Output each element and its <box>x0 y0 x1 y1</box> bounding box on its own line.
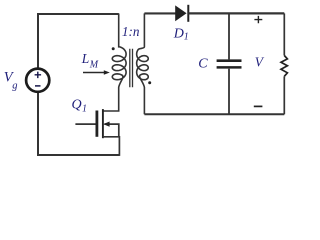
MOSFET gate bar <box>96 111 99 137</box>
svg-text:C: C <box>198 56 208 71</box>
svg-text:D: D <box>173 26 184 41</box>
svg-text:Q: Q <box>72 97 82 112</box>
MOSFET channel line <box>102 109 104 138</box>
resistor load zigzag <box>281 56 287 77</box>
svg-text:1: 1 <box>82 103 87 114</box>
MOSFET body arrow line <box>105 124 119 137</box>
polarity dot secondary <box>148 81 151 84</box>
svg-text:L: L <box>81 51 90 66</box>
wire: capacitor bottom lead <box>228 69 230 115</box>
capacitor C bottom plate <box>217 66 242 69</box>
svg-text:1:n: 1:n <box>122 24 140 39</box>
wire: primary loop top/left/bottom rails <box>38 14 119 155</box>
svg-text:g: g <box>12 81 17 92</box>
minus sign inside source <box>35 85 41 87</box>
wire: capacitor top lead <box>228 13 230 59</box>
svg-text:V: V <box>255 54 265 69</box>
capacitor C top plate <box>217 59 242 62</box>
transformer core lines <box>130 49 133 88</box>
polarity dot primary <box>112 47 115 50</box>
LM arrow <box>83 72 105 74</box>
transformer primary winding LM with top lead and drain lead <box>103 14 126 112</box>
wire: right rail lower <box>283 76 285 114</box>
wire: secondary top lead to diode anode <box>144 12 175 14</box>
diode D1 cathode bar <box>187 5 189 22</box>
plus sign inside source <box>35 72 42 79</box>
wire: diode cathode to right rail <box>188 12 284 14</box>
transformer secondary winding with leads <box>137 13 149 114</box>
svg-text:M: M <box>89 60 99 71</box>
MOSFET source lead <box>103 137 120 156</box>
wire: secondary bottom rail <box>144 113 284 115</box>
MOSFET body arrowhead <box>103 122 109 127</box>
MOSFET Q1 gate lead <box>75 123 95 125</box>
wire: right rail upper <box>283 13 285 55</box>
diode D1 triangle <box>175 5 186 21</box>
svg-text:1: 1 <box>184 32 189 43</box>
output minus sign <box>254 105 263 107</box>
output plus sign <box>254 16 262 23</box>
voltage source Vg circle <box>26 69 49 92</box>
